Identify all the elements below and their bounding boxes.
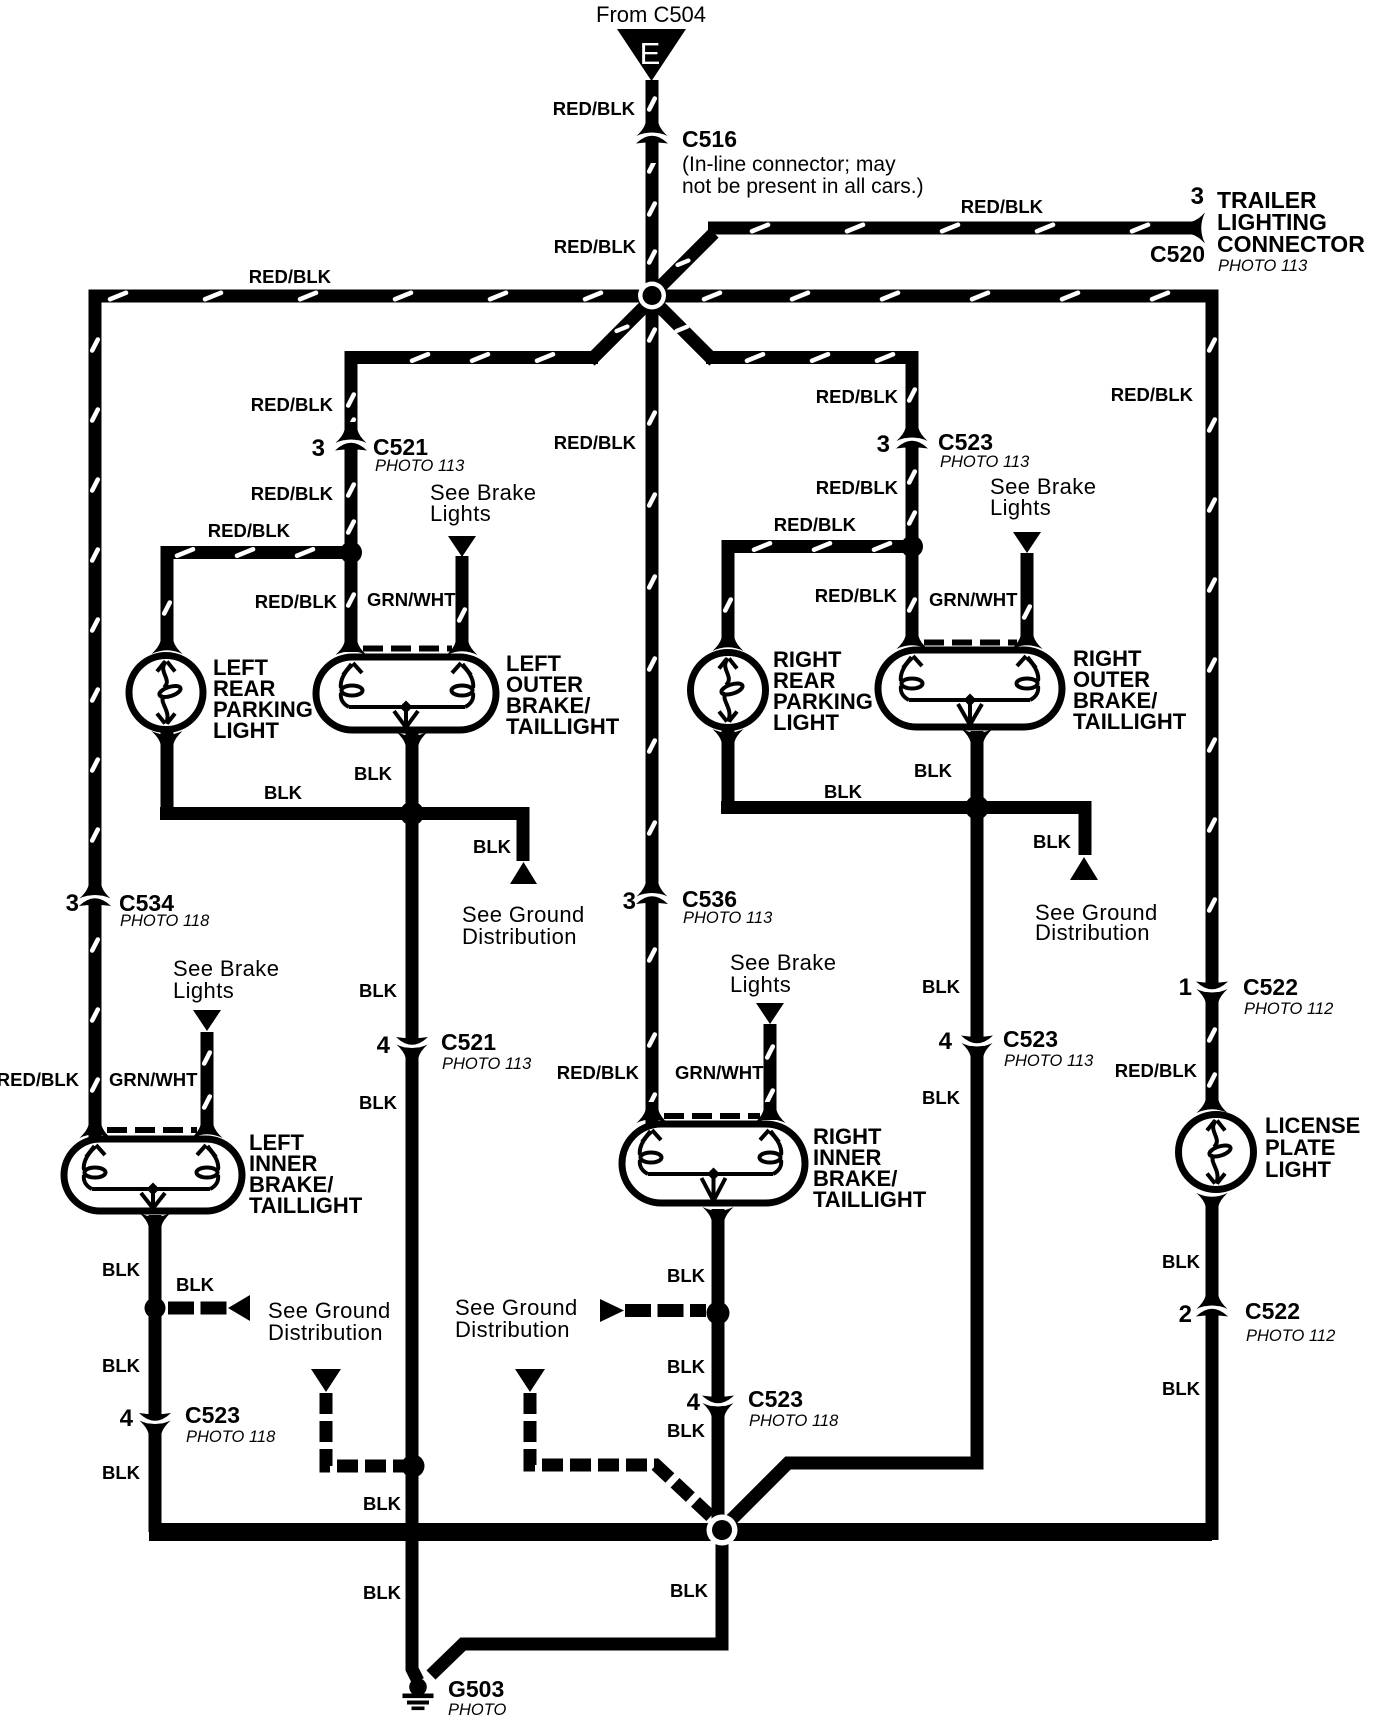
connector C523 pin 4 right inner: [701, 1376, 736, 1424]
svg-text:BLK: BLK: [363, 1582, 402, 1603]
svg-text:GRN/WHT: GRN/WHT: [109, 1069, 198, 1090]
svg-text:LIGHT: LIGHT: [773, 710, 840, 735]
wire RED/BLK right parking light branch: [728, 547, 912, 647]
svg-text:PHOTO 118: PHOTO 118: [186, 1428, 276, 1446]
svg-text:RED/BLK: RED/BLK: [557, 1062, 640, 1083]
svg-text:C523: C523: [1003, 1026, 1058, 1052]
svg-text:C522: C522: [1243, 974, 1298, 1000]
bottom junction node: [707, 1515, 738, 1546]
svg-text:1: 1: [1179, 974, 1192, 1001]
node left ground bus: [400, 802, 424, 826]
svg-text:3: 3: [312, 435, 325, 462]
wire BLK left ground bus + stub: [160, 814, 523, 862]
wire RED/BLK east horizontal + right vertical: [652, 296, 1212, 1101]
node left outer branch: [340, 542, 362, 564]
wire BLK dashed link arrow to right inner exit: [625, 1304, 706, 1317]
wire BLK left outer exit down to G503: [412, 731, 418, 1681]
stripe dashes: [92, 99, 1215, 1108]
svg-text:BLK: BLK: [667, 1420, 706, 1441]
svg-text:BLK: BLK: [354, 763, 393, 784]
svg-text:BLK: BLK: [102, 1355, 141, 1376]
main junction node: [638, 282, 666, 310]
lamp right outer brake/taillight: [878, 650, 1062, 727]
From C504 source triangle E: [617, 29, 686, 81]
svg-text:PHOTO 113: PHOTO 113: [683, 909, 773, 927]
svg-text:BLK: BLK: [1162, 1251, 1201, 1272]
wire GRN/WHT to left inner lamp: [201, 1032, 214, 1134]
connector C521 pin 3: [334, 422, 369, 470]
svg-text:BLK: BLK: [359, 980, 398, 1001]
dashed bulb link right outer: [924, 640, 1017, 646]
svg-text:2: 2: [1179, 1301, 1192, 1328]
arrow See Ground Distribution left outer stub: [510, 862, 537, 884]
wire BLK right inner exit down to junction: [712, 1209, 725, 1531]
wire BLK left parking to ground bus: [161, 727, 174, 814]
wire BLK junction to G503 ground: [431, 1529, 722, 1675]
svg-text:BLK: BLK: [359, 1092, 398, 1113]
svg-text:3: 3: [623, 888, 636, 915]
svg-text:4: 4: [120, 1405, 134, 1432]
svg-text:PHOTO 113: PHOTO 113: [375, 457, 465, 475]
node left outer exit dashed link: [402, 1455, 425, 1478]
lamp left outer brake/taillight: [316, 657, 496, 730]
lamp right rear parking light: [691, 653, 766, 728]
svg-text:not be present in all cars.): not be present in all cars.): [682, 175, 924, 198]
svg-text:PHOTO: PHOTO: [448, 1701, 507, 1719]
svg-text:BLK: BLK: [667, 1356, 706, 1377]
svg-text:RED/BLK: RED/BLK: [0, 1069, 80, 1090]
svg-text:RED/BLK: RED/BLK: [251, 483, 334, 504]
svg-text:(In-line connector; may: (In-line connector; may: [682, 153, 896, 176]
svg-text:RED/BLK: RED/BLK: [251, 394, 334, 415]
wire GRN/WHT to right outer lamp: [1021, 553, 1034, 643]
arrow See Brake Lights left inner: [193, 1010, 221, 1031]
wire RED/BLK left horizontal + far-left vertical: [95, 296, 652, 1144]
connector C522 pin 1: [1195, 962, 1230, 1010]
svg-text:BLK: BLK: [922, 976, 961, 997]
svg-text:3: 3: [1191, 183, 1204, 210]
svg-text:4: 4: [939, 1028, 953, 1055]
svg-text:BLK: BLK: [922, 1087, 961, 1108]
svg-text:BLK: BLK: [1033, 831, 1072, 852]
svg-text:BLK: BLK: [102, 1462, 141, 1483]
dashed bulb link right inner: [664, 1113, 760, 1119]
svg-text:4: 4: [687, 1389, 701, 1416]
arrow See Brake Lights right inner: [756, 1003, 784, 1024]
lamp license plate light: [1179, 1115, 1254, 1190]
svg-text:RED/BLK: RED/BLK: [815, 585, 898, 606]
dashed bulb link left inner: [107, 1127, 197, 1133]
svg-text:BLK: BLK: [264, 782, 303, 803]
svg-text:RED/BLK: RED/BLK: [553, 98, 636, 119]
svg-text:RED/BLK: RED/BLK: [1115, 1060, 1198, 1081]
wire RED/BLK central vertical from C504: [646, 80, 659, 1127]
svg-text:C523: C523: [938, 429, 993, 455]
wire BLK right parking to ground bus: [722, 725, 735, 808]
svg-text:RED/BLK: RED/BLK: [249, 266, 332, 287]
svg-text:TAILLIGHT: TAILLIGHT: [249, 1193, 363, 1218]
connector C516 in-line: [635, 115, 670, 163]
wire RED/BLK left parking light branch: [167, 553, 351, 651]
wire RED/BLK SE diagonal: [650, 297, 714, 361]
svg-text:E: E: [640, 36, 661, 71]
wire RED/BLK trailer horizontal: [708, 222, 1192, 235]
wire BLK dashed link left inner to See Ground Distribution: [168, 1302, 227, 1315]
svg-text:Distribution: Distribution: [455, 1317, 570, 1342]
arrow See Brake Lights left outer: [448, 536, 476, 557]
connector C522 pin 2: [1195, 1288, 1230, 1336]
arrow See Brake Lights right outer: [1013, 532, 1041, 553]
connector C523 pin 3: [895, 420, 930, 468]
wire BLK right ground bus + stub: [721, 808, 1085, 856]
wire BLK bottom bus: [149, 1523, 1212, 1541]
svg-text:RED/BLK: RED/BLK: [961, 196, 1044, 217]
wire RED/BLK branch to C523 / right outer lamp: [706, 358, 912, 646]
svg-text:LIGHT: LIGHT: [213, 718, 280, 743]
svg-text:Distribution: Distribution: [1035, 920, 1150, 945]
connector C534 pin 3: [78, 878, 113, 926]
wire BLK dashed from left-center arrow to left outer exit: [326, 1393, 405, 1466]
svg-text:BLK: BLK: [363, 1493, 402, 1514]
svg-text:C523: C523: [748, 1386, 803, 1412]
svg-text:Lights: Lights: [430, 501, 491, 526]
svg-text:GRN/WHT: GRN/WHT: [367, 589, 456, 610]
lamp left rear parking light: [129, 656, 203, 730]
svg-text:BLK: BLK: [824, 781, 863, 802]
wire RED/BLK NE diagonal to trailer connector: [650, 233, 714, 297]
svg-text:Distribution: Distribution: [268, 1320, 383, 1345]
svg-text:BLK: BLK: [1162, 1378, 1201, 1399]
wire GRN/WHT to right inner lamp: [764, 1024, 777, 1120]
wire BLK dashed from right-center arrow to bottom junction: [530, 1393, 717, 1522]
svg-text:BLK: BLK: [670, 1580, 709, 1601]
arrow See Ground Distribution right center to right inner: [600, 1299, 624, 1322]
svg-text:G503: G503: [448, 1676, 504, 1702]
svg-text:BLK: BLK: [102, 1259, 141, 1280]
svg-text:RED/BLK: RED/BLK: [1111, 384, 1194, 405]
wire RED/BLK branch to C521 / left outer lamp: [351, 358, 598, 653]
svg-text:3: 3: [877, 431, 890, 458]
svg-text:GRN/WHT: GRN/WHT: [929, 589, 1018, 610]
svg-text:BLK: BLK: [176, 1274, 215, 1295]
wire BLK right outer exit to bottom junction: [722, 731, 977, 1529]
ground G503: [409, 1678, 427, 1696]
svg-text:C521: C521: [441, 1029, 496, 1055]
svg-text:LIGHT: LIGHT: [1265, 1157, 1332, 1182]
svg-text:GRN/WHT: GRN/WHT: [675, 1062, 764, 1083]
wire RED/BLK SW diagonal: [590, 297, 654, 361]
node left inner exit: [145, 1298, 166, 1319]
see-ground down arrow left-center: [311, 1369, 341, 1392]
svg-text:PHOTO 118: PHOTO 118: [749, 1412, 839, 1430]
connector C523 pin 4 left inner: [138, 1394, 173, 1442]
svg-text:TAILLIGHT: TAILLIGHT: [1073, 709, 1187, 734]
svg-text:RED/BLK: RED/BLK: [816, 386, 899, 407]
svg-text:Distribution: Distribution: [462, 924, 577, 949]
svg-text:C523: C523: [185, 1402, 240, 1428]
svg-text:4: 4: [377, 1032, 391, 1059]
node right inner exit: [707, 1302, 730, 1325]
see-ground down arrow right-center: [515, 1369, 545, 1392]
lamp right inner brake/taillight: [622, 1124, 805, 1203]
svg-text:C520: C520: [1150, 241, 1205, 267]
svg-text:PHOTO 112: PHOTO 112: [1246, 1327, 1335, 1345]
svg-text:RED/BLK: RED/BLK: [774, 514, 857, 535]
trailer lighting connector terminal: [1184, 213, 1205, 244]
svg-text:PHOTO 113: PHOTO 113: [1004, 1052, 1094, 1070]
wire GRN/WHT to left outer lamp: [456, 556, 469, 650]
svg-text:RED/BLK: RED/BLK: [208, 520, 291, 541]
arrow See Ground Distribution left inner: [228, 1295, 250, 1321]
wire BLK left inner exit down to bottom bus: [149, 1215, 162, 1532]
svg-text:CONNECTOR: CONNECTOR: [1217, 231, 1365, 257]
lamp entry flares: [80, 628, 1228, 1138]
svg-text:PHOTO 113: PHOTO 113: [940, 453, 1030, 471]
svg-text:RED/BLK: RED/BLK: [255, 591, 338, 612]
lamp left inner brake/taillight: [64, 1139, 242, 1211]
svg-text:PHOTO 118: PHOTO 118: [120, 912, 210, 930]
lamp exit flares: [140, 729, 1228, 1234]
svg-text:C516: C516: [682, 126, 737, 152]
node right outer branch: [901, 536, 923, 558]
connector C523 pin 4 right outer: [960, 1016, 995, 1064]
wire BLK license lamp exit down to bottom bus: [1206, 1204, 1219, 1540]
svg-text:BLK: BLK: [473, 836, 512, 857]
svg-text:From C504: From C504: [596, 2, 706, 27]
svg-text:TAILLIGHT: TAILLIGHT: [813, 1187, 927, 1212]
svg-text:BLK: BLK: [667, 1265, 706, 1286]
dashed bulb link left outer: [363, 646, 452, 652]
svg-text:3: 3: [66, 890, 79, 917]
connector C536 pin 3: [635, 876, 670, 924]
svg-text:BLK: BLK: [914, 760, 953, 781]
connector C521 pin 4: [395, 1018, 430, 1066]
svg-text:PHOTO 113: PHOTO 113: [442, 1055, 532, 1073]
svg-text:Lights: Lights: [990, 495, 1051, 520]
svg-text:RED/BLK: RED/BLK: [554, 432, 637, 453]
svg-text:Lights: Lights: [730, 972, 791, 997]
node right ground bus: [965, 796, 989, 820]
svg-text:C522: C522: [1245, 1298, 1300, 1324]
arrow See Ground Distribution right outer stub: [1070, 857, 1098, 880]
svg-text:RED/BLK: RED/BLK: [816, 477, 899, 498]
svg-text:PHOTO 112: PHOTO 112: [1244, 1000, 1333, 1018]
svg-text:TAILLIGHT: TAILLIGHT: [506, 714, 620, 739]
svg-text:Lights: Lights: [173, 978, 234, 1003]
svg-text:RED/BLK: RED/BLK: [554, 236, 637, 257]
svg-text:PHOTO 113: PHOTO 113: [1218, 257, 1308, 275]
